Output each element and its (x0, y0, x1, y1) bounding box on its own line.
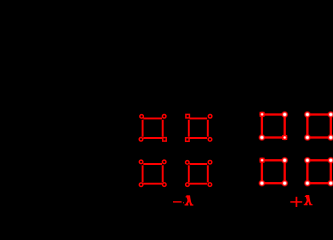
plaquette P3 square (143, 164, 163, 184)
node P3 bottom-left circle (139, 183, 143, 187)
node P2 top-left square (186, 114, 190, 118)
node P2 top-right circle (208, 115, 212, 119)
node P6 bottom-left dot (304, 134, 311, 141)
node P1 top-right circle (162, 115, 166, 119)
node P5 top-left filled square (259, 111, 266, 118)
node P8 top-left dot (304, 157, 311, 164)
node P4 top-right circle (208, 160, 212, 164)
plaquette P1 square (143, 118, 163, 138)
node P7 top-right dot (281, 157, 288, 164)
node P7 bottom-left dot (258, 180, 265, 187)
node P4 bottom-left circle (186, 183, 190, 187)
node P6 top-right dot (327, 111, 333, 118)
node P4 bottom-right circle (208, 183, 212, 187)
node P3 top-left circle (139, 160, 143, 164)
label plus-lambda plus sign (290, 201, 302, 203)
node P8 bottom-right dot (327, 180, 333, 187)
node P5 bottom-right filled square (281, 134, 288, 141)
node P5 bottom-left dot (258, 134, 265, 141)
plaquette P5 square (262, 115, 285, 138)
node P1 bottom-right square (163, 138, 167, 142)
label plus-lambda lambda glyph (304, 195, 313, 205)
node P8 top-right dot (327, 157, 333, 164)
node P7 top-left filled square (259, 157, 266, 164)
node P3 bottom-right circle (163, 183, 167, 187)
node P2 bottom-left square (186, 138, 190, 142)
label minus-lambda lambda glyph (185, 195, 194, 205)
node P6 top-left dot (304, 111, 311, 118)
plaquette P2 square (189, 118, 208, 138)
plaquette P8 square (307, 160, 330, 183)
node P7 bottom-right dot (281, 180, 288, 187)
plaquette P4 square (189, 164, 208, 184)
node P6 bottom-right dot (327, 134, 333, 141)
node P1 bottom-left circle (139, 138, 143, 142)
node P5 top-right dot (281, 111, 288, 118)
plaquette P7 square (262, 160, 285, 183)
label minus-lambda minus sign (173, 201, 182, 202)
node P2 bottom-right circle (208, 138, 212, 142)
plaquette P6 square (307, 115, 330, 138)
node P1 top-left circle (140, 115, 144, 119)
node P8 bottom-left dot (304, 180, 311, 187)
node P4 top-left circle (186, 161, 190, 165)
node P3 top-right circle (162, 160, 166, 164)
